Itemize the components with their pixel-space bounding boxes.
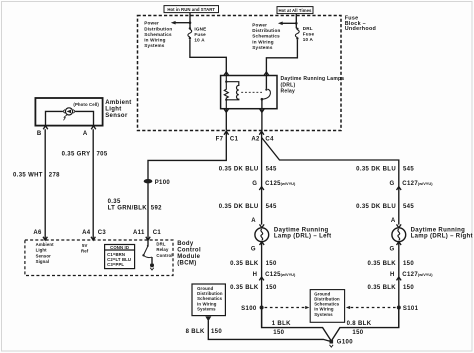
wire: feed from Hot at All Times to DRL fuse [295, 14, 297, 29]
svg-text:Distribution: Distribution [144, 26, 172, 31]
svg-text:A11: A11 [133, 230, 145, 236]
lamp: Daytime Running Lamp (DRL) Right [392, 228, 406, 242]
svg-text:A: A [83, 131, 88, 137]
svg-text:Hot in RUN and START: Hot in RUN and START [167, 7, 215, 12]
svg-text:705: 705 [97, 151, 108, 157]
svg-text:H: H [390, 272, 395, 278]
svg-text:10 A: 10 A [303, 37, 314, 42]
net label: Hot at All Times [277, 7, 313, 14]
wire value label: 1 BLK 150 [272, 321, 291, 336]
svg-text:Module: Module [177, 254, 200, 260]
svg-text:0.35 BLK: 0.35 BLK [230, 285, 259, 291]
relay terminal exit chevrons [224, 109, 264, 112]
svg-text:S101: S101 [403, 306, 419, 312]
svg-text:H: H [253, 272, 258, 278]
wire value label: 0.35 WHT 278 [13, 173, 60, 179]
svg-text:C125: C125 [265, 181, 281, 187]
label: Body Control Module (BCM) [177, 241, 201, 267]
svg-text:C4: C4 [265, 136, 274, 142]
net label: Hot in RUN and START [164, 6, 219, 13]
pin A11 (C1) of BCM [133, 230, 161, 240]
svg-text:Power: Power [252, 22, 267, 27]
svg-text:A: A [391, 218, 396, 224]
pin G of left lamp [251, 242, 264, 253]
connector P100 [144, 179, 171, 186]
svg-text:150: 150 [211, 329, 222, 335]
label: Ambient Light Sensor [105, 100, 131, 119]
wire: A2/C4 down to left DRL lamp [261, 131, 263, 225]
label: DRL Fuse 10 A [303, 26, 315, 42]
svg-text:0.35 BLK: 0.35 BLK [230, 261, 259, 267]
reference dashed arrow: S100 to ground distribution box [265, 306, 310, 309]
fuse block underhood dashed box [138, 16, 342, 131]
relay coil winding [226, 82, 239, 100]
wire value label: 0.35 BLK 150 (left upper) [230, 261, 277, 267]
svg-text:Systems: Systems [252, 45, 273, 50]
connector C127 pin G [389, 181, 433, 190]
svg-text:545: 545 [403, 167, 414, 173]
pin A of right lamp [391, 218, 401, 228]
relay coil resistor element [224, 76, 228, 109]
svg-text:1 BLK: 1 BLK [272, 321, 291, 327]
connector C127 pin H [390, 272, 433, 281]
svg-text:C127: C127 [402, 272, 418, 278]
svg-text:(w/VYU): (w/VYU) [418, 272, 433, 277]
wire: IGNE fuse to DRL relay coil terminal [190, 39, 229, 75]
svg-text:Signal: Signal [36, 259, 50, 264]
svg-text:150: 150 [266, 261, 277, 267]
wire: F7 to P100 to BCM A11 [148, 131, 226, 240]
svg-text:C1: C1 [230, 136, 239, 142]
svg-text:Daytime Running Lamps: Daytime Running Lamps [281, 76, 345, 82]
svg-text:Relay: Relay [156, 247, 169, 252]
svg-text:G: G [251, 246, 256, 252]
BCM DRL relay control driver switch [142, 240, 154, 270]
svg-text:C127: C127 [402, 181, 418, 187]
svg-text:10 A: 10 A [194, 38, 205, 43]
svg-text:Relay: Relay [281, 89, 296, 95]
pin G of right lamp [389, 242, 401, 253]
svg-text:S100: S100 [241, 306, 257, 312]
svg-text:Light: Light [36, 248, 48, 253]
label: Ambient Light Sensor Signal (BCM internal) [36, 242, 54, 264]
svg-text:Body: Body [177, 241, 194, 247]
label: Power Distribution Schematics in Wiring Systems (left) [144, 21, 172, 49]
svg-text:5V: 5V [82, 243, 88, 248]
svg-text:150: 150 [403, 285, 414, 291]
svg-text:592: 592 [151, 206, 162, 212]
svg-text:Systems: Systems [144, 43, 165, 48]
svg-text:0.35 DK BLU: 0.35 DK BLU [356, 204, 396, 210]
svg-text:IGNE: IGNE [194, 26, 206, 31]
svg-text:C1: C1 [153, 230, 162, 236]
svg-text:in Wiring: in Wiring [252, 39, 273, 44]
svg-text:A4: A4 [82, 230, 91, 236]
label: Power Distribution Schematics in Wiring Systems (right) [252, 22, 280, 50]
svg-text:A2: A2 [251, 136, 260, 142]
reference dashed arrow: S101 to ground distribution box [346, 306, 397, 309]
svg-text:G100: G100 [337, 340, 353, 346]
svg-text:Sensor: Sensor [105, 113, 128, 119]
svg-text:DRL: DRL [303, 26, 313, 31]
svg-text:Distribution: Distribution [252, 28, 280, 33]
svg-text:in Wiring: in Wiring [144, 38, 165, 43]
reference arrow: Power Distribution Schematics (left) [171, 21, 190, 25]
svg-text:Control: Control [156, 253, 172, 258]
svg-text:G: G [252, 181, 257, 187]
photocell symbol [46, 108, 94, 126]
svg-text:Ref: Ref [81, 249, 89, 254]
table: CONN ID C1=BRN C2=LT BLU C3=PPL [105, 245, 135, 269]
junction: feed split to power distribution reference (right) [295, 22, 298, 25]
svg-text:Lamp (DRL) – Left: Lamp (DRL) – Left [274, 234, 332, 240]
svg-text:Fuse: Fuse [303, 32, 315, 37]
wire: 8 BLK ground wire to G100 [208, 321, 331, 342]
junction: coil bottom [225, 99, 227, 101]
wire value label: 0.35 BLK 150 (left lower) [230, 285, 277, 291]
wire value label: 0.35 DK BLU 545 (left upper) [219, 167, 277, 173]
wire: relay to connector F7/C1 [225, 109, 227, 131]
svg-text:8 BLK: 8 BLK [186, 329, 205, 335]
svg-text:0.35: 0.35 [108, 199, 121, 205]
label: 5V Ref (BCM internal) [81, 243, 89, 254]
svg-text:0.35 DK BLU: 0.35 DK BLU [219, 167, 259, 173]
svg-text:Hot at All Times: Hot at All Times [278, 8, 312, 13]
svg-text:G: G [389, 181, 394, 187]
ground G100 [330, 340, 354, 348]
wire: relay to connector A2/C4 [261, 109, 263, 131]
wire value label: 0.35 BLK 150 (right upper) [368, 261, 415, 267]
reference box: Ground Distribution Schematics (left) [192, 284, 225, 316]
svg-text:(w/VYU): (w/VYU) [418, 181, 433, 186]
svg-text:0.35 DK BLU: 0.35 DK BLU [356, 167, 396, 173]
wire value label: 0.35 GRY 705 [62, 151, 108, 157]
wire: sensor B to BCM A6 [44, 129, 46, 240]
connector C125 pin G [252, 181, 296, 190]
pin B of ambient light sensor [37, 126, 48, 137]
junction: feed split to power distribution reference [189, 21, 192, 24]
relay actuation dashed link [241, 91, 262, 93]
svg-text:A: A [251, 218, 256, 224]
svg-text:C3=PPL: C3=PPL [107, 262, 124, 267]
label: Daytime Running Lamp (DRL) - Right [411, 227, 473, 239]
wire: right lamp to S101 [398, 242, 400, 328]
pin A of left lamp [251, 218, 264, 228]
lamp: Daytime Running Lamp (DRL) Left [255, 228, 269, 242]
svg-text:LT GRN/BLK: LT GRN/BLK [108, 206, 148, 212]
svg-text:Control: Control [177, 248, 201, 254]
splice S101 [397, 306, 419, 312]
relay: Daytime Running Lamps (DRL) Relay box [221, 76, 277, 109]
wire value label: 0.35 DK BLU 545 (right lower) [356, 204, 414, 210]
splice S100 [241, 306, 263, 312]
label: Daytime Running Lamp (DRL) - Left [274, 227, 332, 239]
svg-text:Ambient: Ambient [36, 242, 54, 247]
svg-text:545: 545 [266, 167, 277, 173]
svg-text:0.35 BLK: 0.35 BLK [368, 261, 397, 267]
svg-text:0.35 GRY: 0.35 GRY [62, 151, 91, 157]
pin A6 of BCM [33, 230, 47, 240]
svg-text:C3: C3 [98, 230, 107, 236]
svg-text:0.35 WHT: 0.35 WHT [13, 173, 43, 179]
wire: sensor A to BCM A4 [92, 129, 94, 240]
svg-text:Light: Light [105, 107, 121, 113]
svg-text:A6: A6 [33, 230, 42, 236]
label: Fuse Block - Underhood [345, 16, 376, 32]
svg-text:150: 150 [352, 330, 363, 336]
reference box: Ground Distribution Schematics (middle) [310, 290, 344, 323]
label: DRL Relay Control (BCM internal) [156, 242, 172, 258]
relay switch contact [265, 76, 267, 91]
svg-text:(w/VYU): (w/VYU) [281, 181, 296, 186]
svg-text:(w/VYU): (w/VYU) [281, 272, 296, 277]
junction: coil top [225, 81, 227, 83]
svg-text:0.8 BLK: 0.8 BLK [347, 321, 372, 327]
svg-text:(Photo Cell): (Photo Cell) [73, 102, 99, 107]
wire: DRL fuse to relay switch terminal [264, 40, 297, 76]
svg-text:Fuse: Fuse [194, 32, 206, 37]
wire: branch feed to right DRL lamp [262, 138, 399, 225]
svg-text:0.35 BLK: 0.35 BLK [368, 285, 397, 291]
wire value label: 8 BLK 150 [186, 329, 223, 335]
label: Daytime Running Lamps (DRL) Relay [281, 76, 345, 95]
pin F7 (C1) [216, 131, 239, 142]
svg-text:150: 150 [266, 285, 277, 291]
svg-text:C125: C125 [265, 272, 281, 278]
svg-text:Power: Power [144, 21, 159, 26]
svg-text:Underhood: Underhood [345, 26, 376, 32]
svg-text:F7: F7 [216, 136, 224, 142]
svg-text:(BCM): (BCM) [177, 261, 196, 267]
svg-text:Systems: Systems [314, 312, 333, 317]
svg-text:Schematics: Schematics [252, 34, 280, 39]
wire value label: 0.35 LT GRN/BLK 592 [108, 199, 163, 211]
fuse DRL 10 A [295, 28, 299, 40]
svg-text:Sensor: Sensor [36, 253, 51, 258]
reference arrow: Power Distribution Schematics (right) [278, 22, 296, 26]
svg-text:(DRL): (DRL) [281, 82, 296, 88]
svg-text:B: B [37, 131, 42, 137]
svg-text:G: G [389, 246, 394, 252]
pin A2 (C4) [251, 131, 274, 142]
svg-text:278: 278 [49, 173, 60, 179]
fuse IGNE 10 A [188, 27, 192, 39]
wire: right lamp feed labels [356, 167, 414, 173]
svg-text:545: 545 [266, 204, 277, 210]
wire value label: 0.8 BLK 150 [347, 321, 372, 336]
svg-text:Systems: Systems [197, 306, 216, 311]
svg-text:CONN ID: CONN ID [110, 245, 129, 250]
wire value label: 0.35 BLK 150 (right lower) [368, 285, 415, 291]
svg-text:Daytime Running: Daytime Running [274, 227, 329, 233]
wire: S101 to G100 [331, 308, 399, 342]
svg-text:P100: P100 [155, 180, 171, 186]
BCM: Body Control Module dashed box [25, 240, 173, 276]
label: IGNE Fuse 10 A [194, 26, 206, 42]
wire: feed from Hot in RUN and START to IGNE fuse [189, 13, 191, 28]
svg-text:Daytime Running: Daytime Running [411, 227, 466, 233]
svg-text:150: 150 [403, 261, 414, 267]
sensor: Ambient Light Sensor box [35, 98, 102, 126]
reference arrow under left ground box [205, 316, 211, 321]
label: (Photo Cell) [73, 102, 99, 107]
svg-text:0.35 DK BLU: 0.35 DK BLU [219, 204, 259, 210]
wire: left lamp to S100 [261, 242, 263, 328]
svg-text:Ambient: Ambient [105, 100, 131, 106]
pin A4 (C3) of BCM [82, 230, 106, 240]
svg-text:Schematics: Schematics [144, 32, 172, 37]
connector C125 pin H [253, 272, 296, 281]
svg-text:Lamp (DRL) – Right: Lamp (DRL) – Right [411, 234, 473, 240]
wire: S100 to G100 [262, 308, 332, 342]
svg-text:545: 545 [403, 204, 414, 210]
relay switch armature [261, 89, 271, 109]
svg-text:DRL: DRL [156, 242, 165, 247]
pin A of ambient light sensor [83, 126, 96, 137]
svg-text:150: 150 [273, 330, 284, 336]
wire value label: 0.35 DK BLU 545 (left lower) [219, 204, 277, 210]
